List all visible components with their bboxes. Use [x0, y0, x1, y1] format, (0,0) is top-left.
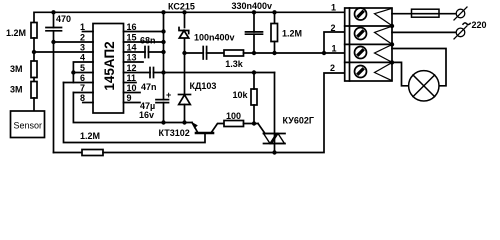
svg-text:10: 10 — [127, 83, 137, 93]
wire pin16 — [124, 31, 164, 33]
wire lamp top loop — [392, 49, 446, 86]
svg-text:3М: 3М — [10, 85, 23, 95]
svg-text:8: 8 — [80, 93, 85, 103]
capacitor C4 47µ plates — [156, 99, 169, 101]
wire pin7 down to base rail A — [73, 93, 192, 123]
svg-text:13: 13 — [127, 53, 137, 63]
svg-text:1.2M: 1.2M — [6, 28, 26, 38]
wire R7 to gate node — [244, 123, 259, 125]
svg-text:9: 9 — [127, 93, 132, 103]
wedge contact row2 — [375, 26, 393, 44]
node block edge 3 — [390, 60, 394, 64]
svg-text:16: 16 — [127, 22, 137, 32]
svg-text:10k: 10k — [233, 90, 249, 100]
node 1.2M junction — [272, 51, 276, 55]
screw contact row1 — [355, 8, 367, 20]
capacitor C5 100n400v — [202, 47, 204, 60]
resistor R4 1.3k — [224, 50, 244, 56]
node terminal2 junction — [322, 51, 326, 55]
node rail 330n junction — [252, 10, 256, 14]
wire W1 R4 to block row3 — [244, 52, 346, 54]
triac VS1 КУ602Г top bar — [264, 133, 286, 135]
wire pin8 stub — [83, 102, 93, 104]
node block edge 2 — [390, 42, 394, 46]
diode VD2 КД103 — [179, 94, 191, 96]
sensor box — [11, 111, 45, 138]
resistor R3 3M — [31, 82, 37, 99]
node rail zener junction — [182, 10, 186, 14]
wire terminal 2 row — [324, 32, 345, 53]
wire line 2 — [392, 31, 456, 33]
svg-text:100n400v: 100n400v — [194, 32, 235, 42]
wire pin1 stub — [83, 31, 94, 33]
wire pin5 — [73, 72, 93, 74]
svg-text:14: 14 — [127, 43, 137, 53]
wire pin6 — [64, 82, 94, 84]
svg-text:12: 12 — [127, 63, 137, 73]
svg-text:16v: 16v — [139, 110, 154, 120]
wire W1 zener to C5 — [185, 52, 204, 54]
svg-text:15: 15 — [127, 33, 137, 43]
wire 10k bottom lead — [253, 105, 255, 124]
node rail junction x163 — [161, 10, 165, 14]
svg-text:47n: 47n — [141, 82, 157, 92]
svg-text:145АП2: 145АП2 — [102, 41, 117, 90]
wire C4 bottom to rail A — [163, 103, 165, 123]
svg-text:220: 220 — [472, 20, 487, 30]
wire pin10 stub — [124, 92, 141, 94]
svg-text:1: 1 — [80, 22, 85, 32]
capacitor C1 470 — [46, 27, 62, 29]
svg-text:3М: 3М — [10, 64, 23, 74]
transistor Q1 КТ3102 base bar — [196, 132, 213, 135]
capacitor C6 330n400v — [246, 31, 263, 33]
wire pin3 — [34, 51, 93, 53]
wedge contact row4 — [375, 63, 393, 81]
wire triac cathode — [274, 144, 276, 153]
resistor R8 1.2M (bottom) — [82, 150, 103, 156]
terminal block row border 2 — [345, 43, 392, 45]
wire zener line down to diode — [184, 53, 186, 95]
wire W2 pin12 row — [154, 72, 275, 74]
wire R1 bottom to node — [33, 38, 35, 61]
wire gate diagonal to triac — [258, 124, 265, 134]
svg-text:КД103: КД103 — [190, 81, 217, 91]
wire C2 to vertical — [149, 51, 164, 53]
svg-text:+: + — [166, 90, 171, 100]
wire pin14 to C2 — [124, 51, 146, 53]
node C4 bottom junction — [161, 120, 165, 124]
svg-text:3: 3 — [80, 43, 85, 53]
wire pin13 stub — [124, 61, 144, 63]
svg-text:КТ3102: КТ3102 — [159, 128, 190, 138]
screw contact row3 — [355, 47, 367, 59]
wire rail to zener — [184, 12, 186, 27]
svg-text:1.2M: 1.2M — [282, 29, 302, 39]
svg-text:1.2M: 1.2M — [80, 131, 100, 141]
svg-text:2: 2 — [80, 33, 85, 43]
node zener W1 junction — [182, 51, 186, 55]
svg-text:1: 1 — [332, 44, 337, 54]
svg-text:7: 7 — [80, 83, 85, 93]
wire vertical x163 rail to C4 — [163, 12, 165, 99]
wire rail to C6 — [253, 12, 255, 32]
wire C6 to W1 — [253, 34, 255, 53]
wire C5 to R4 — [207, 52, 224, 54]
node pin3 junction — [32, 50, 36, 54]
wire between 3M resistors — [33, 78, 35, 82]
node rail/C1 junction — [51, 10, 55, 14]
triac bottom bar — [264, 143, 286, 145]
terminal block inner line — [349, 8, 351, 81]
wire pin12 to C3 — [124, 72, 151, 74]
node pin16 junction — [161, 29, 165, 33]
node triac cathode junction — [272, 150, 276, 154]
terminal block row border 3 — [345, 61, 392, 63]
wire 10k top lead — [253, 73, 255, 90]
node 330n junction — [252, 51, 256, 55]
wire pin7 — [73, 92, 93, 94]
node block edge 1 — [390, 24, 394, 28]
wire rail to R5 — [274, 12, 276, 23]
resistor R6 10k — [251, 89, 257, 105]
node pin2 junction — [51, 40, 55, 44]
capacitor C2 68n — [144, 47, 146, 58]
resistor R7 100 — [224, 121, 244, 127]
wire top rail — [34, 12, 345, 22]
resistor R5 1.2M (right) — [271, 24, 278, 42]
svg-text:1.3k: 1.3k — [225, 59, 244, 69]
wire C1 down long vertical — [53, 31, 55, 153]
node pin5 junction — [71, 70, 75, 74]
svg-text:5: 5 — [80, 63, 85, 73]
transistor Q1 emitter — [192, 123, 198, 134]
resistor R1 1.2M (left top) — [31, 23, 37, 39]
node W2 x163 junction — [161, 70, 165, 74]
wire pin15 — [124, 41, 164, 43]
svg-text:100: 100 — [226, 111, 241, 121]
wire fuse line — [392, 13, 456, 15]
lamp EL1 — [409, 71, 439, 101]
wire pin4-5-6 tie — [72, 73, 74, 83]
svg-text:6: 6 — [80, 73, 85, 83]
wire pin2 — [54, 41, 94, 43]
wire pin6 down to emitter line — [64, 83, 206, 143]
wire lamp left loop — [392, 62, 409, 85]
node diode rail A junction — [182, 120, 186, 124]
capacitor C3 47n — [149, 68, 151, 78]
wire zener to W1 — [184, 39, 186, 54]
node rail 1.2M junction — [272, 10, 276, 14]
wire diode to rail A — [184, 105, 186, 123]
node 10k top junction — [252, 70, 256, 74]
svg-text:2: 2 — [331, 23, 336, 33]
fuse FU1 — [412, 9, 440, 17]
wire pin9 stub — [124, 102, 141, 104]
label ~220 — [463, 23, 471, 25]
zener VD1 КС215 — [179, 28, 189, 34]
wire pin4 — [73, 62, 93, 73]
svg-text:КУ602Г: КУ602Г — [283, 116, 314, 126]
svg-text:КС215: КС215 — [168, 1, 195, 11]
svg-text:68n: 68n — [140, 36, 156, 46]
svg-text:2: 2 — [330, 63, 335, 73]
svg-text:Sensor: Sensor — [14, 121, 43, 131]
IC U1 145АП2 body — [93, 24, 124, 114]
node 10k gate junction — [252, 121, 256, 125]
node pin15 junction — [161, 40, 165, 44]
wire rail to C1 — [53, 12, 55, 27]
svg-text:470: 470 — [56, 14, 71, 24]
resistor R2 3M — [31, 61, 37, 78]
screw contact row4 — [355, 66, 367, 78]
wire bottom rail C — [54, 152, 83, 154]
svg-text:1: 1 — [331, 3, 336, 13]
triac triangle left — [264, 134, 277, 144]
wire W2 down to triac anode — [274, 73, 276, 144]
wedge contact row1 — [375, 8, 393, 25]
wire bottom rail C right — [103, 73, 345, 153]
svg-text:330n400v: 330n400v — [232, 1, 273, 11]
triac triangle right — [272, 134, 285, 144]
wire R5 to W1 — [274, 42, 276, 54]
terminal circle 2 — [454, 26, 467, 39]
node 68n junction — [161, 50, 165, 54]
transistor Q1 collector — [211, 124, 224, 134]
wedge contact row3 — [375, 45, 393, 63]
svg-text:4: 4 — [80, 53, 85, 63]
wire pin11 stub — [124, 82, 137, 84]
screw contact row2 — [355, 28, 367, 40]
svg-text:11: 11 — [127, 73, 137, 83]
terminal block X1 outline — [345, 8, 392, 81]
terminal block row border 1 — [345, 25, 392, 27]
wire R3 to sensor — [33, 98, 35, 111]
terminal circle 1 — [454, 7, 467, 20]
